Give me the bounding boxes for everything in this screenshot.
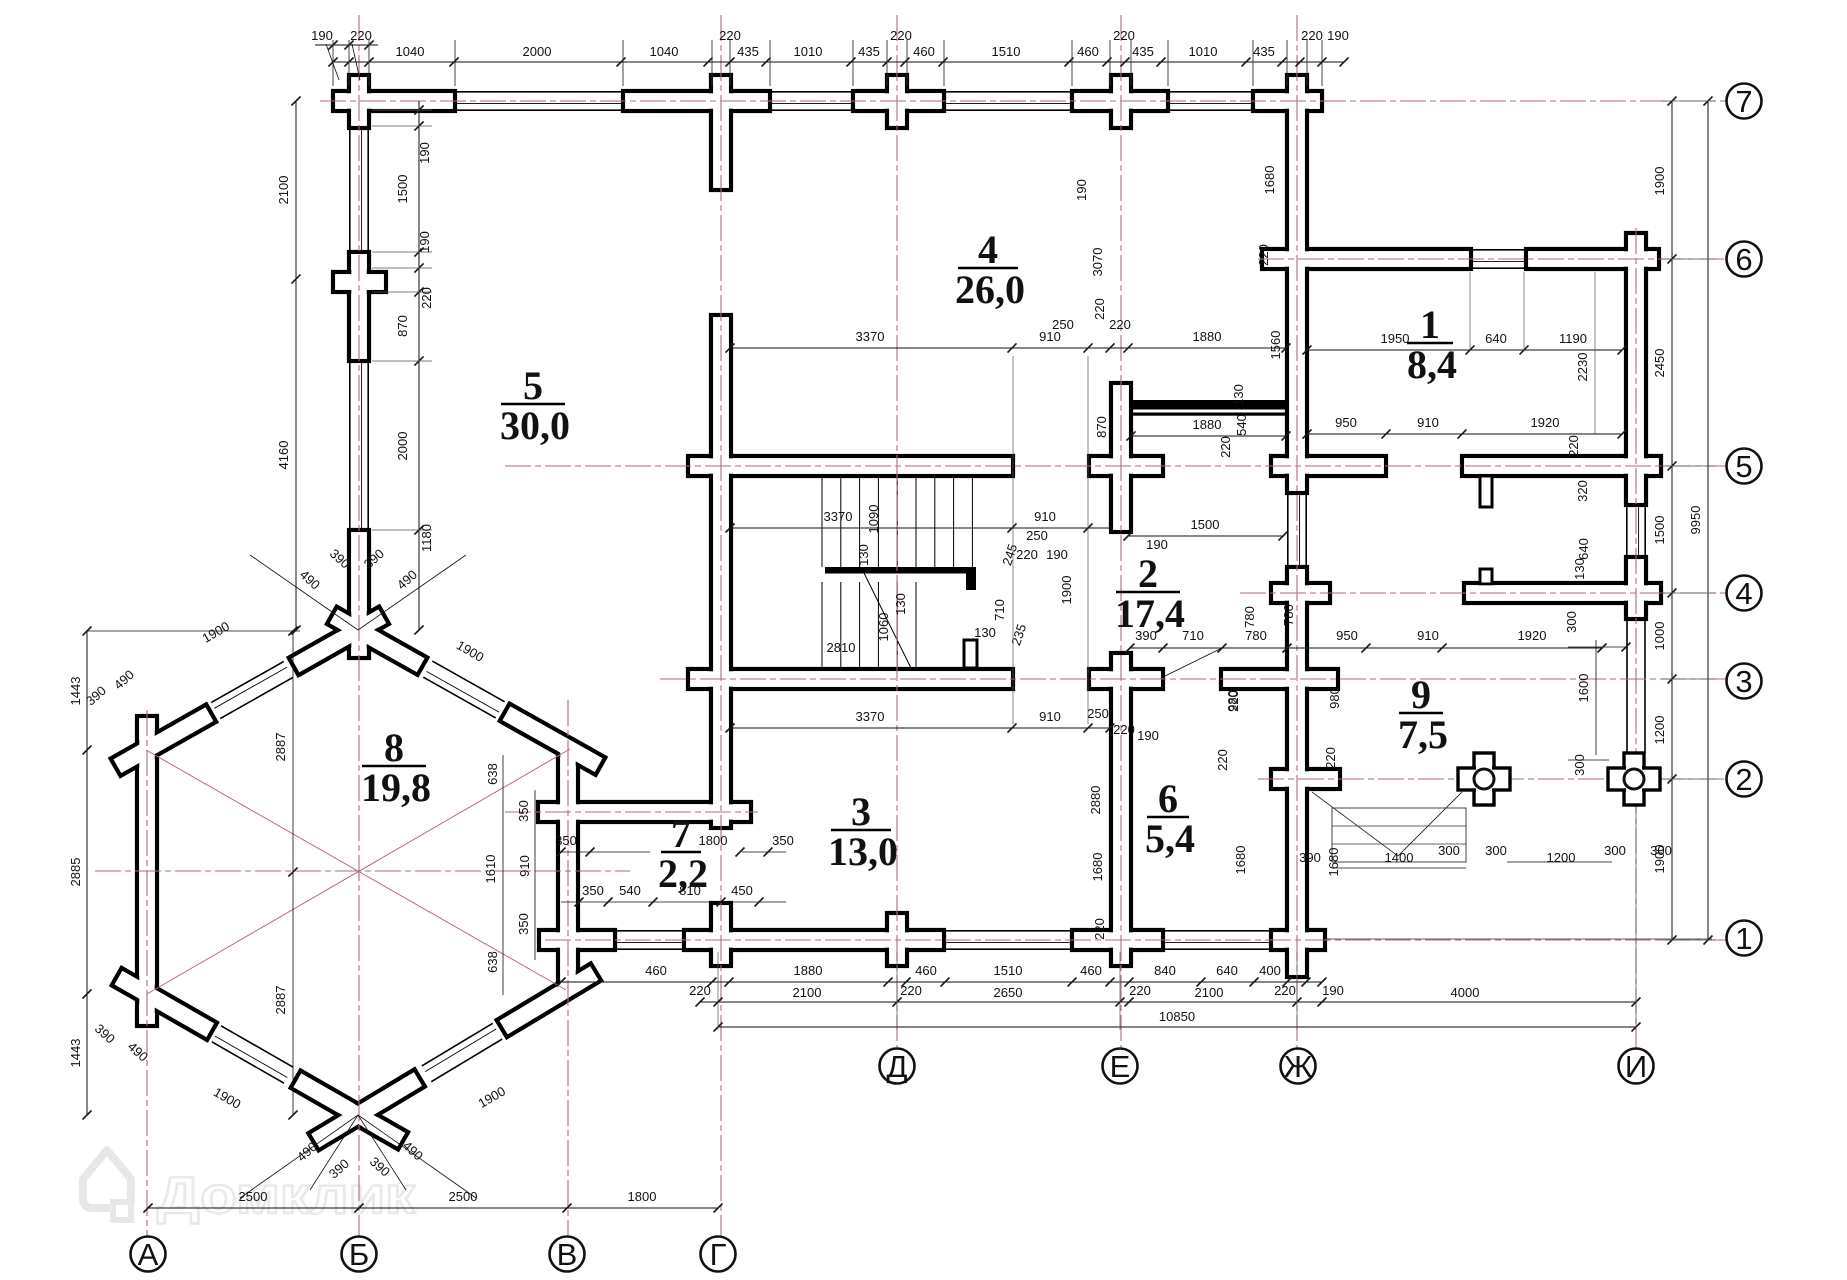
svg-text:460: 460 [1080,963,1102,978]
svg-text:1880: 1880 [1193,329,1222,344]
svg-text:450: 450 [731,883,753,898]
stair flight upper risers [821,478,823,567]
svg-text:7: 7 [1735,84,1752,119]
row above axis-3 dims 390/710/780/950/910/1920 [1130,647,1602,649]
svg-text:130: 130 [856,544,871,566]
stair direction line [863,571,911,668]
svg-text:220: 220 [1301,28,1323,43]
left chain x419 [418,101,420,630]
svg-text:2885: 2885 [68,858,83,887]
hex joint LL diag bar [112,968,217,1040]
svg-text:9: 9 [1411,672,1431,717]
right total chain 9950 [1707,101,1709,940]
wall axis-7 segment Zh [1253,91,1322,111]
svg-text:130: 130 [974,625,996,640]
svg-text:1: 1 [1735,921,1752,956]
svg-text:220: 220 [1092,298,1107,320]
svg-text:2230: 2230 [1575,353,1590,382]
wall axis-7 segment D [853,91,944,111]
wall axis-6 east [1526,249,1659,269]
svg-text:950: 950 [1335,415,1357,430]
axis Zh red line [1296,15,1298,1048]
wall axis-G main [711,315,731,828]
grid bubble 3 [1727,664,1762,699]
hex joint top diag-left bar [289,607,389,676]
svg-text:1610: 1610 [483,855,498,884]
window wall axis-7 E-Zh [1168,91,1253,93]
hexagon wall top-right (open) [432,661,504,702]
svg-text:5,4: 5,4 [1145,816,1195,861]
grid bubble Д [880,1049,915,1084]
svg-text:220: 220 [1566,435,1581,457]
svg-text:130: 130 [893,593,908,615]
svg-text:19,8: 19,8 [361,765,431,810]
svg-text:320: 320 [1575,480,1590,502]
svg-text:435: 435 [858,44,880,59]
wall axis-7 segment B [333,91,455,111]
svg-text:460: 460 [915,963,937,978]
axis B red line [358,15,360,1236]
svg-text:1510: 1510 [994,963,1023,978]
axis 2 red line [1258,778,1726,780]
wall axis-1 at Zh [1271,930,1325,950]
svg-text:950: 950 [1336,628,1358,643]
top dimension row B [333,61,1344,63]
svg-text:220: 220 [719,28,741,43]
axis E red line [1120,15,1122,1048]
svg-text:220: 220 [1274,983,1296,998]
svg-text:220: 220 [419,287,434,309]
svg-text:1040: 1040 [650,44,679,59]
svg-text:300: 300 [1485,843,1507,858]
svg-text:1880: 1880 [1193,417,1222,432]
svg-text:220: 220 [350,28,372,43]
svg-text:7,5: 7,5 [1398,712,1448,757]
svg-text:4: 4 [978,227,998,272]
stair region extension lines [1012,356,1014,724]
svg-text:300: 300 [1650,843,1672,858]
svg-text:2500: 2500 [239,1189,268,1204]
svg-text:710: 710 [1182,628,1204,643]
arm of axis-B cross [333,272,386,292]
svg-text:640: 640 [1485,331,1507,346]
svg-text:1800: 1800 [699,833,728,848]
svg-text:435: 435 [1132,44,1154,59]
wall axis-1 at E [1072,930,1163,950]
open colonnade axis-I below 4 [1626,619,1628,753]
left hexagon chains [86,631,88,1115]
terrace steps outline room 9 [1332,808,1466,862]
svg-text:220: 220 [1215,749,1230,771]
svg-text:Б: Б [349,1237,369,1272]
svg-text:350: 350 [516,800,531,822]
wall axis-Zh upper [1287,75,1307,493]
dims near columns 1400/300/1200 [1332,867,1466,869]
svg-text:И: И [1625,1049,1647,1084]
window wall axis-7 B-G [455,91,623,93]
wall axis-B top cross bar [349,75,369,128]
svg-text:130: 130 [1572,558,1587,580]
watermark house logo [83,1150,131,1208]
window wall axis-6 [1471,249,1526,251]
top extension lines [332,40,334,86]
svg-text:1950: 1950 [1381,331,1410,346]
svg-text:640: 640 [1576,538,1591,560]
grid bubble И [1619,1049,1654,1084]
grid bubble 5 [1727,449,1762,484]
bottom extension lines [717,952,719,1030]
axis 3 red line [660,678,1726,680]
right extension lines [1661,100,1716,102]
svg-text:300: 300 [1604,843,1626,858]
grid bubble 6 [1727,242,1762,277]
hexagon wall bottom-right (open) [431,1039,502,1082]
wall axis-D top bar [887,75,907,128]
axis I red line [1635,228,1637,1048]
hexagon red diagonal UL-LR [146,750,566,990]
row room7 dims 350/1800/350 [561,851,650,853]
axis 6 red line [1258,258,1726,260]
hex joint LR diag bar [497,963,602,1037]
grid bubble В [550,1237,585,1272]
svg-text:3: 3 [1735,664,1752,699]
svg-text:130: 130 [1231,384,1246,406]
svg-text:710: 710 [992,599,1007,621]
svg-text:390: 390 [1299,850,1321,865]
hexagon fan lines top vertex [250,555,358,630]
svg-text:350: 350 [516,913,531,935]
stair newel post [964,640,977,668]
svg-text:1200: 1200 [1547,850,1576,865]
wall axis-Zh lower [1287,567,1307,977]
window wall axis-7 D-E [944,91,1072,93]
svg-text:1680: 1680 [1326,848,1341,877]
wall axis-2 at Zh [1271,769,1340,789]
hex joint UL diag bar [111,704,217,776]
svg-text:1200: 1200 [1652,716,1667,745]
stair flight lower risers [821,582,823,668]
wall axis-V hexagon east [558,749,578,990]
svg-text:220: 220 [900,983,922,998]
svg-text:350: 350 [555,833,577,848]
svg-text:220: 220 [1113,28,1135,43]
svg-text:1900: 1900 [1652,167,1667,196]
svg-text:2: 2 [1138,551,1158,596]
svg-text:1500: 1500 [1191,517,1220,532]
wall axis-1 G-D [684,930,944,950]
svg-text:2: 2 [1735,762,1752,797]
svg-text:1190: 1190 [1559,331,1587,346]
left margin chain x296 [295,101,297,630]
svg-text:2500: 2500 [449,1189,478,1204]
svg-text:400: 400 [1259,963,1281,978]
svg-text:1510: 1510 [992,44,1021,59]
door jamb stub below axis-5 wall [1480,476,1492,507]
hex joint top diag-right bar [327,607,428,675]
svg-text:460: 460 [913,44,935,59]
wall axis-D bottom bar [887,913,907,966]
hexagon fan lines bottom vertex [240,1115,358,1198]
wall room7 top [538,802,751,822]
wall axis-4 east [1464,583,1661,603]
svg-text:190: 190 [1046,547,1068,562]
grid bubble Г [701,1237,736,1272]
svg-text:220: 220 [1109,317,1131,332]
wall axis-I lower [1626,557,1646,619]
window wall axis-7 G-D [770,91,853,93]
right margin chain [1671,101,1673,940]
hexagon red horizontal centerline [95,870,630,872]
svg-text:780: 780 [1242,606,1257,628]
door jamb stub above axis-4 wall [1480,569,1492,584]
svg-text:1010: 1010 [794,44,823,59]
svg-text:2000: 2000 [523,44,552,59]
svg-text:190: 190 [417,231,432,253]
svg-text:1680: 1680 [1262,166,1277,195]
wall axis-7 segment G [623,91,770,111]
svg-text:910: 910 [1417,415,1439,430]
top dimension row A [315,44,378,46]
column post at 1634,779 [1624,753,1644,805]
row 1880/540 over corridor [1131,435,1286,437]
svg-text:190: 190 [417,142,432,164]
wall axis-B lower [349,530,369,658]
svg-text:А: А [138,1237,159,1272]
grid bubble 2 [1727,762,1762,797]
svg-text:220: 220 [689,983,711,998]
svg-text:435: 435 [737,44,759,59]
svg-text:220: 220 [1092,918,1107,940]
svg-text:1920: 1920 [1518,628,1547,643]
svg-text:220: 220 [1226,690,1241,712]
svg-text:638: 638 [485,951,500,973]
wall axis-3 at E [1089,669,1163,689]
svg-text:780: 780 [1281,604,1296,626]
svg-text:1500: 1500 [1652,516,1667,545]
svg-text:3370: 3370 [824,509,853,524]
svg-text:2100: 2100 [1195,985,1224,1000]
svg-text:2650: 2650 [994,985,1023,1000]
axis G red line [720,15,722,1236]
svg-text:190: 190 [1074,179,1089,201]
svg-text:Г: Г [710,1237,727,1272]
svg-text:9950: 9950 [1688,506,1703,535]
window wall axis-B upper [349,128,351,252]
svg-text:1180: 1180 [419,524,434,552]
svg-text:4000: 4000 [1451,985,1480,1000]
svg-text:6: 6 [1158,776,1178,821]
svg-text:190: 190 [1322,983,1344,998]
svg-text:1880: 1880 [794,963,823,978]
svg-text:5: 5 [1735,449,1752,484]
svg-text:3: 3 [851,789,871,834]
svg-text:638: 638 [485,763,500,785]
svg-text:870: 870 [395,315,410,337]
svg-text:1800: 1800 [628,1189,657,1204]
room1 top dims 1950/640/1190 [1307,349,1622,351]
svg-text:4: 4 [1735,576,1752,611]
svg-text:Д: Д [887,1049,908,1084]
svg-text:300: 300 [1564,611,1579,633]
svg-text:190: 190 [1146,537,1168,552]
svg-text:910: 910 [517,855,532,877]
svg-text:980: 980 [1327,687,1342,709]
partition wall corridor room2 [1131,400,1286,410]
svg-text:220: 220 [1218,436,1233,458]
wall axis-5 at Zh [1271,456,1386,476]
svg-text:1010: 1010 [1189,44,1218,59]
svg-text:1090: 1090 [866,505,881,534]
svg-text:220: 220 [890,28,912,43]
wall axis-G upper [711,75,731,190]
axis V red line [567,700,569,1236]
svg-text:2880: 2880 [1088,786,1103,815]
window wall axis-1 D-E [944,930,1072,932]
svg-text:3370: 3370 [856,709,885,724]
svg-text:17,4: 17,4 [1115,591,1185,636]
grid bubble А [131,1237,166,1272]
svg-text:1920: 1920 [1531,415,1560,430]
svg-text:1443: 1443 [68,1039,83,1068]
svg-text:6: 6 [1735,242,1752,277]
svg-text:250: 250 [1052,317,1074,332]
wall axis-B mid cross [349,252,369,361]
row below axis-3 room3 dims [730,727,1110,729]
svg-text:640: 640 [1216,963,1238,978]
svg-text:1: 1 [1420,302,1440,347]
svg-text:220: 220 [1016,547,1038,562]
svg-text:435: 435 [1253,44,1275,59]
dims 1500/190 room2 top [1128,535,1283,537]
svg-text:Домклик: Домклик [157,1167,416,1225]
svg-text:2450: 2450 [1652,349,1667,378]
svg-text:1060: 1060 [876,613,891,642]
wall axis-7 segment E [1072,91,1168,111]
window wall axis-I between 5 and 4 [1626,505,1628,557]
axis 4 red line [1240,592,1726,594]
terrace diagonal leaders [1312,792,1398,856]
wall axis-1 at V [539,930,615,950]
svg-text:870: 870 [1094,416,1109,438]
svg-text:Е: Е [1110,1049,1131,1084]
window wall axis-1 E-Zh [1163,930,1271,932]
axis 1 red line [545,939,1726,941]
hexagon wall top-left (open) [220,677,293,718]
svg-text:220: 220 [1129,983,1151,998]
bottom row1 dims [561,981,1322,983]
row below axis-5 stairs 3370 [730,527,1110,529]
axis room7-top red line [505,811,758,813]
wall axis-4 at Zh [1271,583,1330,603]
svg-text:220: 220 [1256,244,1271,266]
svg-text:4160: 4160 [276,441,291,470]
wall axis-3 at Zh [1221,669,1338,689]
svg-text:910: 910 [1039,709,1061,724]
svg-text:1560: 1560 [1268,331,1283,360]
svg-text:350: 350 [582,883,604,898]
wall axis-5 room1 [1462,456,1661,476]
svg-text:460: 460 [645,963,667,978]
svg-text:2000: 2000 [395,432,410,461]
wall axis-5 at E [1089,456,1163,476]
hex joint bottom diag-right bar [308,1069,425,1150]
svg-text:220: 220 [1323,747,1338,769]
stair landing rail [825,567,976,574]
svg-text:300: 300 [1572,754,1587,776]
bottom 2500/2500/1800 chain [148,1207,718,1209]
wall interior white fills [335,93,452,108]
svg-text:190: 190 [311,28,333,43]
grid bubble Б [342,1237,377,1272]
svg-text:3070: 3070 [1090,248,1105,277]
grid bubble Е [1103,1049,1138,1084]
wall axis-E top bar [1111,75,1131,128]
svg-text:460: 460 [1077,44,1099,59]
svg-text:540: 540 [1234,414,1249,436]
axis 5 red line [505,465,1726,467]
axis5-axis4 row 950/910/1920 [1307,433,1622,435]
svg-text:2810: 2810 [827,640,856,655]
svg-text:2,2: 2,2 [658,851,708,896]
grid bubble Ж [1281,1049,1316,1084]
row room7 350/540/810/450 [561,901,786,903]
svg-text:300: 300 [1438,843,1460,858]
svg-text:2887: 2887 [273,986,288,1015]
hexagon red diagonal UR-LL [147,749,570,994]
svg-text:350: 350 [772,833,794,848]
window wall axis-1 V-G [615,930,684,932]
wall axis-A hexagon west [137,716,157,1026]
axis 7 red line [320,100,1726,102]
svg-text:2100: 2100 [793,985,822,1000]
svg-text:540: 540 [619,883,641,898]
window wall axis-Zh between 5 and 4 [1287,493,1289,567]
svg-text:190: 190 [1137,728,1159,743]
svg-text:1000: 1000 [1652,622,1667,651]
grid bubble 7 [1727,84,1762,119]
window wall axis-B lower [349,361,351,530]
svg-text:30,0: 30,0 [500,403,570,448]
interior room1 dim verticals [1469,272,1471,350]
wall axis-3 G-room3 [688,669,1013,689]
svg-text:780: 780 [1245,628,1267,643]
svg-text:1680: 1680 [1233,846,1248,875]
svg-text:1900: 1900 [1059,576,1074,605]
row above axis-5 (room4 bottom dims) [730,347,1286,349]
svg-text:10850: 10850 [1159,1009,1195,1024]
bottom row2 dims [700,1001,1636,1003]
svg-text:1680: 1680 [1090,853,1105,882]
wall axis-E lower [1111,653,1131,966]
svg-text:2887: 2887 [273,733,288,762]
svg-text:910: 910 [1417,628,1439,643]
svg-text:8,4: 8,4 [1407,342,1457,387]
svg-text:1400: 1400 [1385,850,1414,865]
svg-text:250: 250 [1087,706,1109,721]
svg-text:1443: 1443 [68,677,83,706]
column post at 1484,779 [1474,753,1494,805]
hex joint bottom diag-left bar [291,1071,409,1150]
svg-text:910: 910 [1034,509,1056,524]
svg-text:В: В [557,1237,578,1272]
svg-text:13,0: 13,0 [828,829,898,874]
wall axis-I upper [1626,233,1646,505]
wall axis-6 west [1262,249,1471,269]
wall axis-E upper [1111,383,1131,532]
svg-text:1040: 1040 [396,44,425,59]
svg-text:1600: 1600 [1576,674,1591,703]
svg-text:3370: 3370 [856,329,885,344]
